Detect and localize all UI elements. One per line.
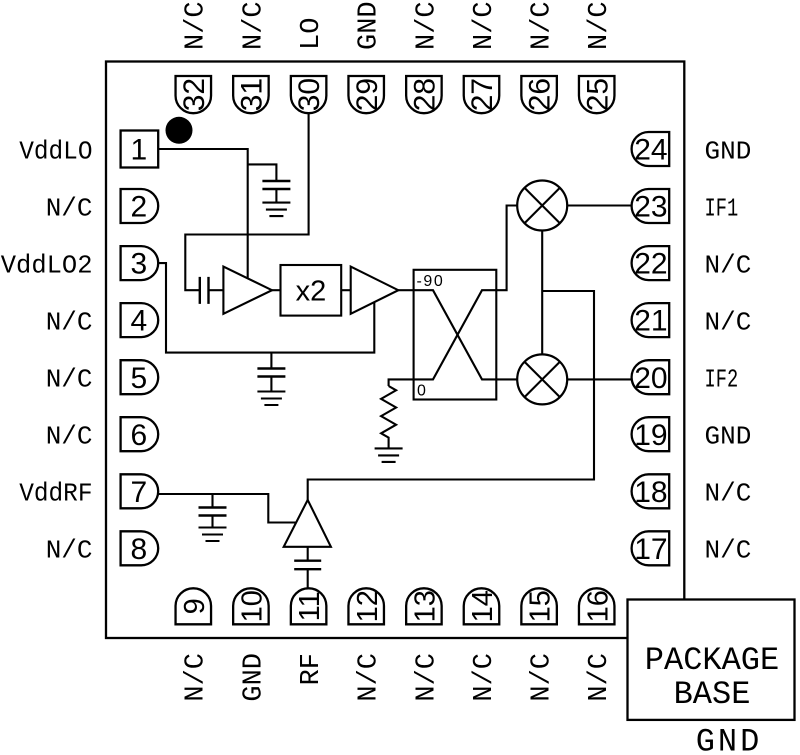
svg-text:GND: GND — [355, 1, 385, 50]
pin 20 (IF2) — [632, 360, 739, 395]
pin 14 (N/C) — [464, 588, 500, 701]
IC package outline — [106, 62, 684, 639]
amplifier A3 (RF LNA, points up) — [284, 500, 331, 547]
package base paddle box — [628, 600, 795, 720]
pin 23 (IF1) — [632, 189, 739, 224]
mixer M2 — [517, 354, 567, 404]
svg-text:10: 10 — [237, 590, 269, 622]
svg-text:N/C: N/C — [355, 653, 385, 702]
capacitor C2 (series blocking) — [200, 277, 209, 304]
capacitor C4 — [199, 508, 227, 528]
svg-text:GND: GND — [705, 422, 752, 452]
svg-text:IF2: IF2 — [705, 365, 739, 395]
svg-text:GND: GND — [696, 724, 763, 755]
svg-text:26: 26 — [524, 78, 557, 111]
ground — [257, 392, 285, 406]
pin 7 (VddRF) — [19, 474, 158, 509]
svg-text:N/C: N/C — [46, 536, 93, 566]
amplifier A1 (LO buffer) — [223, 267, 272, 314]
svg-text:N/C: N/C — [412, 1, 442, 50]
svg-text:8: 8 — [131, 533, 148, 566]
pin 30 (LO) — [291, 18, 327, 114]
svg-text:2: 2 — [131, 191, 148, 224]
svg-text:N/C: N/C — [528, 653, 558, 702]
svg-text:N/C: N/C — [585, 653, 615, 702]
svg-text:N/C: N/C — [46, 193, 93, 223]
svg-text:23: 23 — [634, 191, 667, 224]
svg-text:N/C: N/C — [412, 653, 442, 702]
svg-text:1: 1 — [131, 134, 148, 167]
amplifier A2 (doubler buffer) — [351, 267, 399, 314]
svg-text:VddLO: VddLO — [19, 137, 92, 167]
svg-text:20: 20 — [634, 362, 667, 395]
svg-text:x2: x2 — [296, 276, 327, 308]
svg-text:30: 30 — [293, 78, 326, 111]
pin 18 (N/C) — [632, 474, 752, 509]
pin 4 (N/C) — [46, 303, 159, 338]
pin 25 (N/C) — [579, 1, 615, 113]
svg-text:32: 32 — [178, 78, 211, 111]
pin 28 (N/C) — [406, 1, 442, 113]
svg-text:GND: GND — [239, 653, 269, 702]
capacitor C5 (series RF blocking) — [294, 561, 321, 570]
svg-text:N/C: N/C — [46, 365, 93, 395]
pin 1 (VddLO) — [19, 131, 158, 168]
svg-text:LO: LO — [297, 18, 327, 50]
wire RF distribution from amplifier A3 — [308, 291, 594, 500]
svg-text:N/C: N/C — [585, 1, 615, 50]
svg-text:16: 16 — [582, 590, 614, 622]
svg-text:25: 25 — [581, 78, 614, 111]
svg-text:18: 18 — [634, 476, 667, 509]
pin 8 (N/C) — [46, 531, 159, 566]
pin 10 (GND) — [233, 588, 269, 701]
ground — [262, 203, 290, 217]
pin 5 (N/C) — [46, 360, 159, 395]
svg-text:N/C: N/C — [528, 1, 558, 50]
pin 15 (N/C) — [521, 588, 557, 701]
svg-text:27: 27 — [466, 78, 499, 111]
svg-text:-90: -90 — [417, 273, 445, 290]
pin 27 (N/C) — [464, 1, 500, 113]
svg-text:N/C: N/C — [46, 422, 93, 452]
wire stub to bypass capacitor C3 — [270, 353, 272, 369]
wire VddRF bias from pin 7 to amplifier A3 — [158, 494, 296, 523]
wire mixer M2 output to pin 20 IF2 — [567, 378, 631, 380]
pin 1 index marker dot — [166, 117, 193, 144]
wire branch to bypass capacitor C1 — [248, 164, 277, 181]
wire mixer M1 output to pin 23 IF1 — [567, 204, 631, 206]
pin 31 (N/C) — [233, 1, 269, 113]
wire — [272, 289, 281, 291]
wire hybrid 0 port to mixer M2 — [496, 378, 517, 380]
svg-text:14: 14 — [467, 590, 499, 622]
svg-text:IF1: IF1 — [705, 193, 739, 223]
wire VddLO2 bias from pin 3 to amplifier A2 — [158, 263, 374, 353]
pin 19 (GND) — [632, 417, 752, 452]
pin 29 (GND) — [348, 1, 384, 113]
pin 26 (N/C) — [521, 1, 557, 113]
svg-text:N/C: N/C — [46, 307, 93, 337]
svg-text:N/C: N/C — [182, 653, 212, 702]
resistor R1 (termination) — [381, 386, 396, 448]
90-degree hybrid coupler block — [414, 270, 497, 400]
pin 6 (N/C) — [46, 417, 159, 452]
pin 32 (N/C) — [176, 1, 212, 113]
svg-text:N/C: N/C — [705, 250, 752, 280]
ground — [375, 448, 403, 462]
svg-text:GND: GND — [705, 136, 752, 166]
svg-text:N/C: N/C — [239, 1, 269, 50]
pin 17 (N/C) — [632, 531, 752, 566]
svg-text:N/C: N/C — [182, 1, 212, 50]
pin 16 (N/C) — [579, 588, 615, 701]
ground — [199, 528, 227, 542]
svg-text:N/C: N/C — [705, 536, 752, 566]
pin 21 (N/C) — [632, 303, 752, 338]
svg-text:9: 9 — [179, 598, 211, 614]
wire — [209, 289, 224, 291]
pin 9 (N/C) — [176, 588, 212, 701]
wire LO input from pin 30 — [185, 113, 308, 290]
wire stub to bypass capacitor C4 — [211, 494, 213, 508]
wire RF input from pin 11 — [307, 569, 309, 588]
svg-text:28: 28 — [409, 78, 442, 111]
pin 3 (VddLO2) — [1, 246, 158, 281]
mixer M1 — [517, 181, 567, 231]
pin 11 (RF) — [291, 588, 327, 685]
pin 22 (N/C) — [632, 246, 752, 281]
svg-text:7: 7 — [131, 476, 148, 509]
capacitor C1 — [262, 181, 290, 203]
svg-text:0: 0 — [417, 383, 426, 400]
svg-text:24: 24 — [634, 134, 667, 167]
svg-text:PACKAGE: PACKAGE — [645, 642, 779, 679]
capacitor C3 — [257, 369, 285, 392]
svg-text:17: 17 — [634, 533, 667, 566]
svg-text:12: 12 — [352, 590, 384, 622]
svg-text:6: 6 — [131, 419, 148, 452]
svg-text:N/C: N/C — [705, 307, 752, 337]
svg-text:15: 15 — [525, 590, 557, 622]
svg-text:5: 5 — [131, 362, 148, 395]
svg-text:19: 19 — [634, 419, 667, 452]
svg-text:N/C: N/C — [705, 479, 752, 509]
wire hybrid -90 port to mixer M1 — [496, 206, 517, 291]
svg-text:11: 11 — [294, 591, 326, 621]
svg-text:N/C: N/C — [470, 653, 500, 702]
svg-text:RF: RF — [297, 653, 327, 685]
wire — [307, 547, 309, 561]
pin 24 (GND) — [632, 132, 752, 167]
wire — [341, 289, 351, 291]
svg-text:N/C: N/C — [470, 1, 500, 50]
svg-text:VddRF: VddRF — [19, 479, 92, 509]
svg-text:21: 21 — [634, 305, 667, 338]
svg-text:13: 13 — [410, 590, 442, 622]
pin 2 (N/C) — [46, 189, 159, 224]
wire hybrid isolated port to resistor R1 — [389, 379, 414, 386]
svg-text:VddLO2: VddLO2 — [1, 251, 93, 280]
svg-text:22: 22 — [634, 248, 667, 281]
svg-text:BASE: BASE — [674, 676, 751, 713]
svg-text:4: 4 — [131, 305, 148, 338]
wire — [398, 289, 413, 291]
wire RF feed between mixers — [541, 231, 543, 355]
wire VddLO bias from pin 1 to amplifier A1 — [158, 149, 248, 278]
pin 12 (N/C) — [348, 588, 384, 701]
frequency doubler x2 block — [281, 265, 342, 316]
pin 13 (N/C) — [406, 588, 442, 701]
svg-text:3: 3 — [131, 248, 148, 281]
svg-text:29: 29 — [351, 78, 384, 111]
svg-text:31: 31 — [236, 78, 269, 111]
